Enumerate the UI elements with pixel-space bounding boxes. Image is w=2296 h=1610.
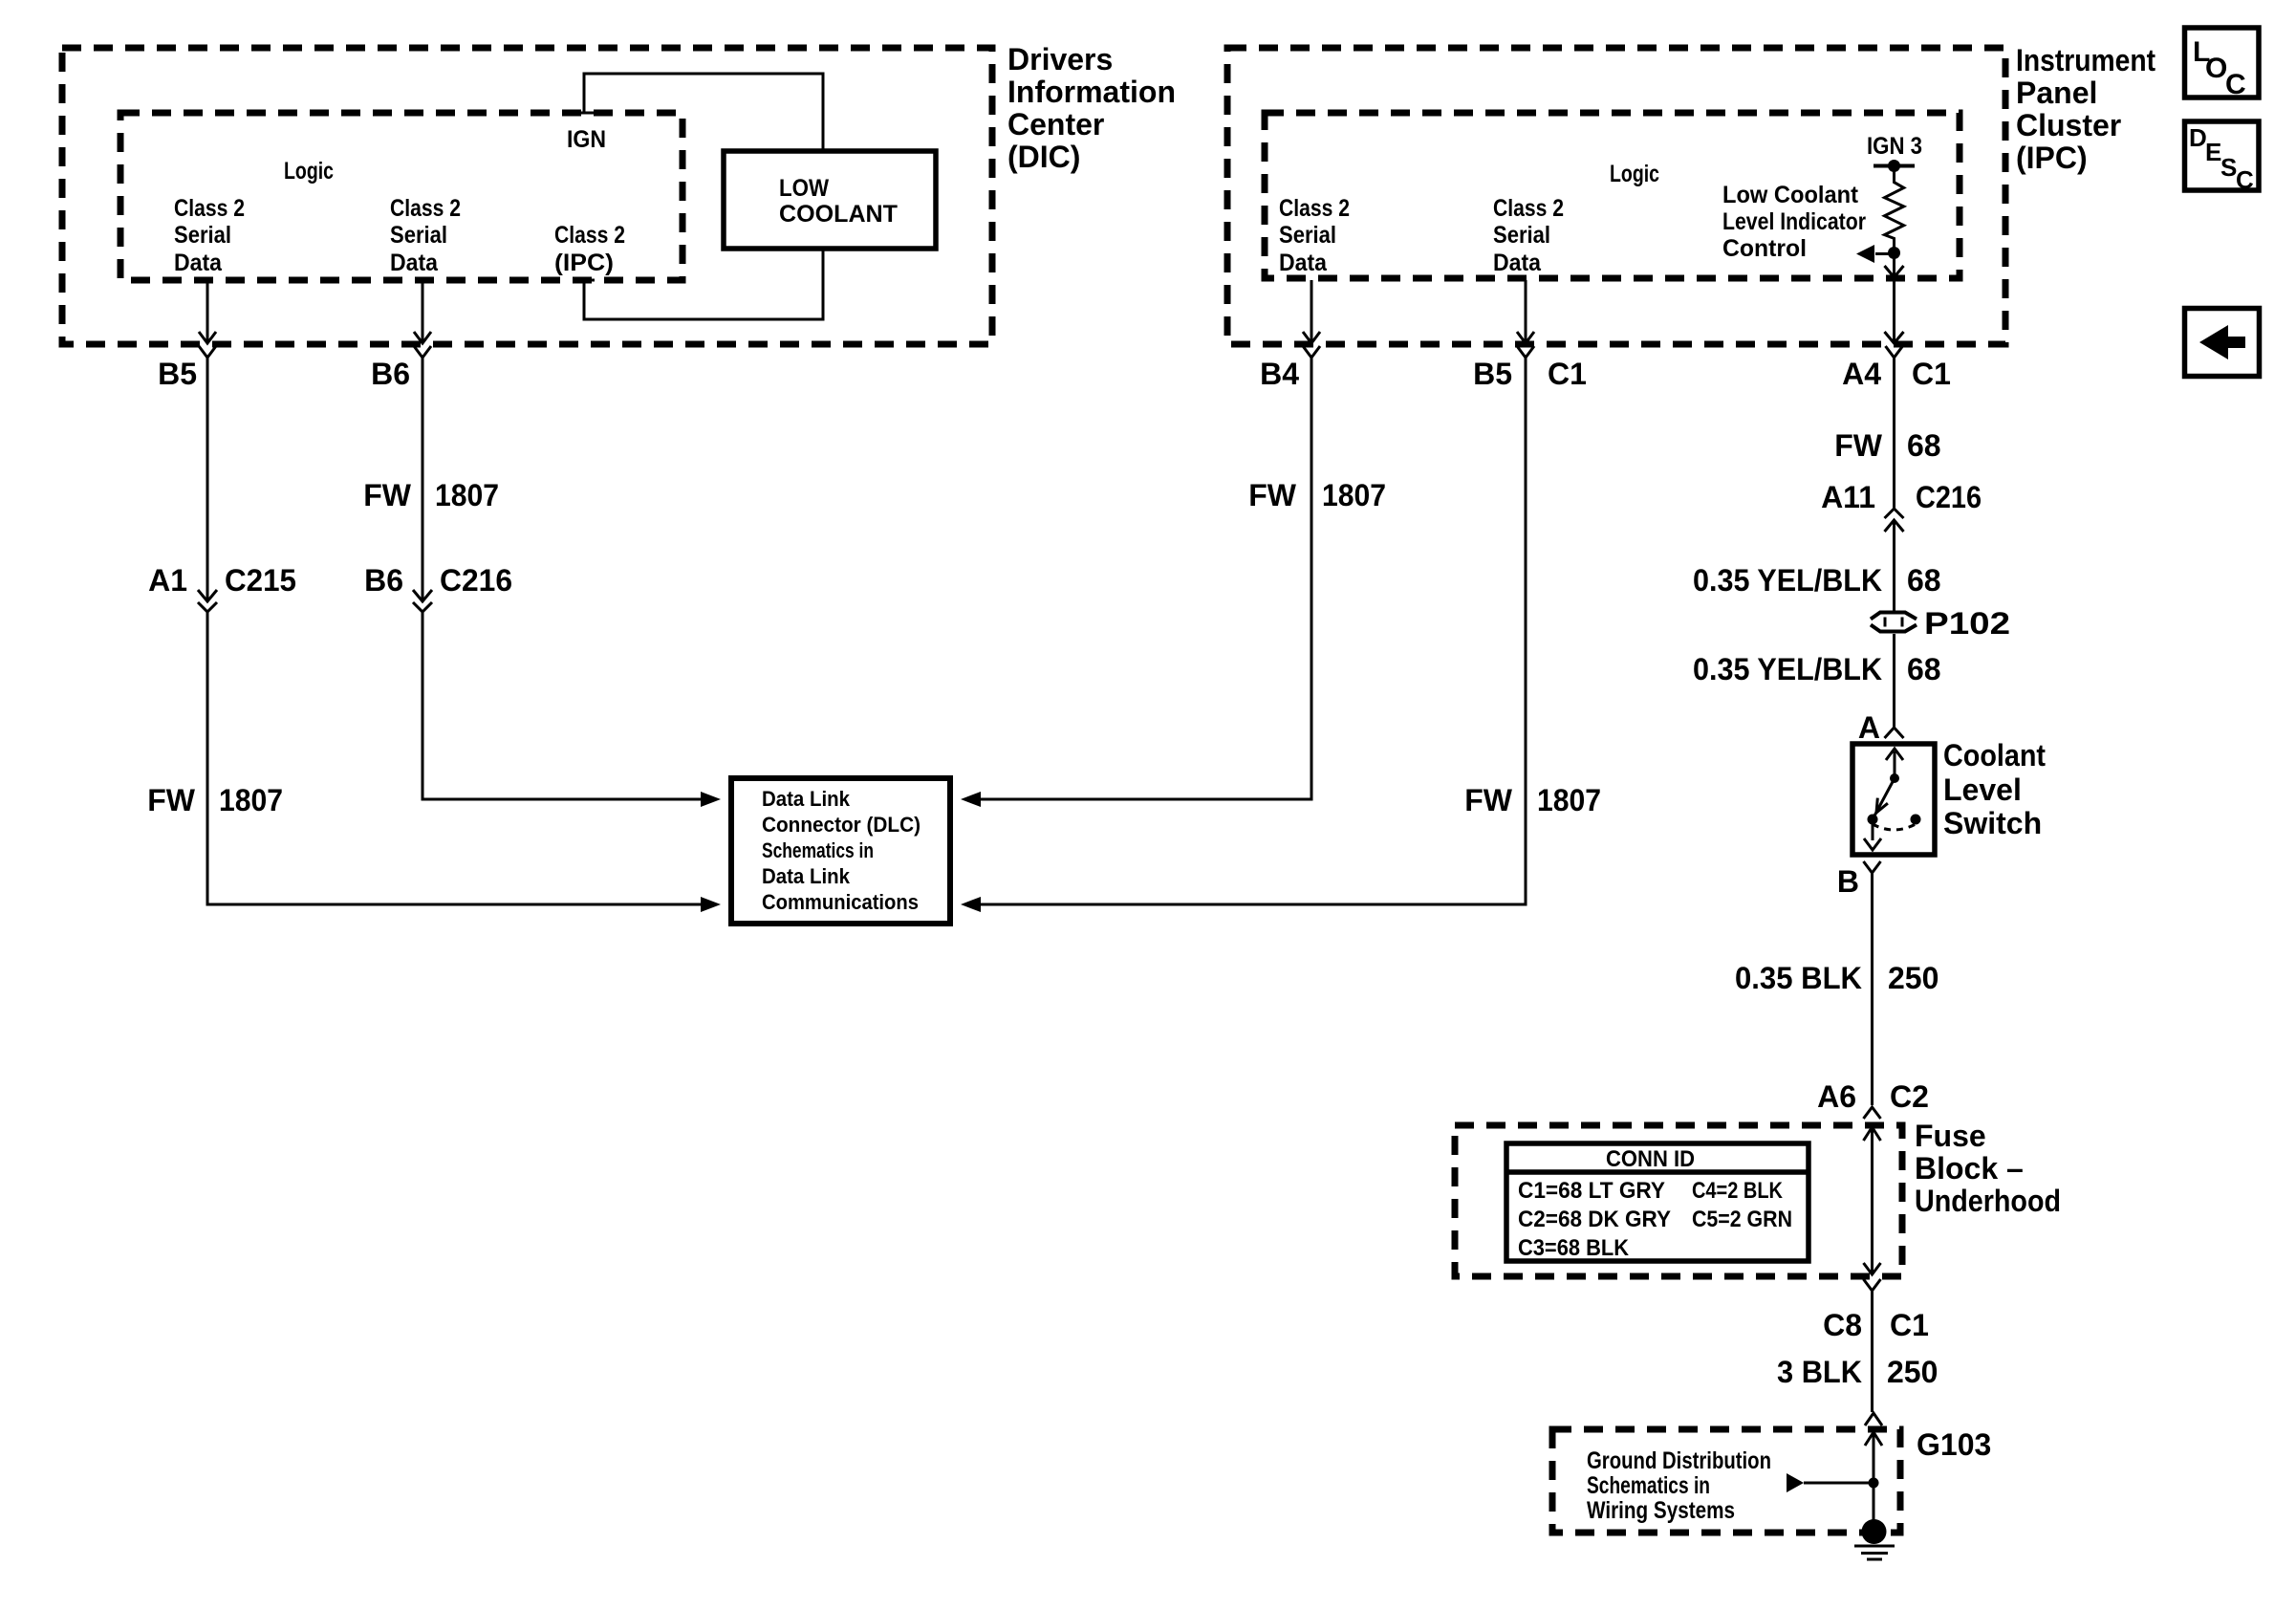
svg-text:Level: Level: [1943, 772, 2022, 807]
switch dashed throw arc: [1873, 824, 1916, 830]
svg-text:Cluster: Cluster: [2016, 108, 2121, 142]
wire C216 to P102: [1893, 520, 1895, 613]
connector Y at pin B5 (IPC): [1517, 346, 1534, 358]
svg-text:Schematics in: Schematics in: [1587, 1472, 1710, 1499]
svg-text:Class 2: Class 2: [1493, 195, 1564, 222]
svg-text:B5: B5: [1473, 357, 1512, 391]
wire label 0.35 BLK 250: [1735, 961, 1939, 995]
svg-text:CONN ID: CONN ID: [1606, 1146, 1695, 1172]
svg-text:A: A: [1858, 710, 1880, 745]
svg-text:C: C: [2236, 165, 2254, 194]
svg-text:Data: Data: [174, 250, 223, 276]
svg-text:S: S: [2220, 153, 2237, 182]
svg-text:C4=2 BLK: C4=2 BLK: [1692, 1178, 1784, 1204]
svg-text:0.35 YEL/BLK: 0.35 YEL/BLK: [1693, 563, 1882, 598]
svg-text:A11: A11: [1821, 480, 1875, 514]
svg-text:C1: C1: [1912, 357, 1951, 391]
svg-text:Coolant: Coolant: [1943, 738, 2046, 772]
svg-text:C1: C1: [1548, 357, 1587, 391]
svg-text:IGN 3: IGN 3: [1867, 133, 1922, 160]
svg-text:Underhood: Underhood: [1915, 1184, 2061, 1218]
connector Y at pin B6: [414, 346, 431, 358]
svg-text:Communications: Communications: [762, 890, 919, 914]
wire B5 to DLC bottom row: [207, 612, 701, 904]
svg-text:Class 2: Class 2: [174, 195, 245, 222]
IPC module dashed box: [1227, 48, 2005, 344]
connector Y at pin C8: [1864, 1279, 1881, 1291]
svg-text:Panel: Panel: [2016, 76, 2097, 110]
wire label 0.35 YEL/BLK 68 (upper): [1693, 563, 1941, 598]
coolant level switch label: [1943, 738, 2046, 840]
svg-text:Control: Control: [1722, 235, 1807, 262]
svg-text:Class 2: Class 2: [554, 222, 625, 249]
ground distribution label: [1587, 1447, 1771, 1524]
svg-text:Serial: Serial: [174, 222, 231, 249]
DLC reference box: [731, 778, 950, 924]
svg-text:1807: 1807: [219, 783, 283, 817]
svg-text:FW: FW: [1464, 783, 1513, 817]
svg-text:Class 2: Class 2: [1279, 195, 1350, 222]
svg-text:FW: FW: [363, 478, 412, 512]
svg-text:LOW: LOW: [779, 175, 829, 202]
fuse block name label: [1915, 1119, 2061, 1218]
switch moving contact arm: [1873, 778, 1895, 819]
wire label FW 68: [1834, 428, 1940, 463]
wire A4 down to C216: [1893, 358, 1895, 510]
wire B6 down to C216: [413, 358, 432, 601]
connector Y at pin B: [1864, 861, 1881, 873]
ground symbol G103: [1854, 1519, 1895, 1559]
svg-text:C8: C8: [1823, 1308, 1862, 1342]
wire LOW COOLANT to Class 2 (IPC): [574, 249, 823, 319]
svg-text:C216: C216: [1916, 480, 1982, 514]
wire B down to fuse block: [1871, 873, 1874, 1105]
connector flare at G103: [1865, 1413, 1882, 1425]
coolant level switch box: [1852, 744, 1935, 855]
IGN 3 feed bar: [1874, 160, 1915, 172]
wire IGN to LOW COOLANT: [574, 74, 823, 151]
svg-text:Class 2: Class 2: [390, 195, 461, 222]
svg-text:C1=68 LT GRY: C1=68 LT GRY: [1518, 1178, 1665, 1204]
svg-text:Data Link: Data Link: [762, 787, 851, 811]
svg-text:Drivers: Drivers: [1007, 42, 1113, 76]
arrow into DLC left top: [701, 792, 721, 807]
svg-text:Serial: Serial: [1279, 222, 1336, 249]
resistor (low coolant indicator driver): [1885, 166, 1904, 253]
wire B5 stub out of IPC: [1517, 280, 1534, 343]
svg-text:Schematics in: Schematics in: [762, 838, 874, 862]
switch pivot dot: [1890, 773, 1899, 783]
wire label FW 1807 (B4 wire): [1248, 478, 1386, 512]
Class 2 Serial Data label (DIC left): [174, 195, 245, 276]
svg-text:Instrument: Instrument: [2016, 43, 2155, 77]
switch right contact dot: [1911, 815, 1921, 825]
svg-text:0.35 YEL/BLK: 0.35 YEL/BLK: [1693, 652, 1882, 686]
svg-text:Block –: Block –: [1915, 1151, 2024, 1186]
svg-text:B5: B5: [158, 357, 197, 391]
in-line connector C216 (right): [1885, 509, 1904, 532]
fuse block underhood dashed box: [1455, 1125, 1902, 1276]
svg-text:(IPC): (IPC): [554, 250, 614, 276]
svg-text:68: 68: [1907, 563, 1941, 598]
svg-text:Data: Data: [390, 250, 439, 276]
svg-text:B4: B4: [1260, 357, 1299, 391]
wire C1 to DLC bottom row: [981, 358, 1526, 904]
wire through fuse block: [1864, 1127, 1881, 1274]
svg-text:68: 68: [1907, 428, 1941, 463]
svg-text:A4: A4: [1842, 357, 1881, 391]
ground reference arrow: [1787, 1473, 1879, 1492]
in-line connector C215: [198, 602, 217, 612]
svg-text:C: C: [2225, 69, 2246, 100]
svg-text:0.35 BLK: 0.35 BLK: [1735, 961, 1862, 995]
svg-text:D: D: [2189, 123, 2207, 152]
wire B6 stub out of DIC: [414, 280, 431, 343]
svg-text:COOLANT: COOLANT: [779, 201, 898, 228]
svg-text:C216: C216: [440, 563, 512, 598]
wire A4 stub out of IPC logic: [1885, 253, 1904, 344]
ground wire into box: [1865, 1432, 1882, 1527]
svg-text:G103: G103: [1917, 1427, 1991, 1462]
DESC button: [2185, 121, 2260, 194]
DIC module dashed box: [62, 48, 992, 344]
svg-text:68: 68: [1907, 652, 1941, 686]
svg-text:C2: C2: [1890, 1079, 1929, 1114]
wire B4 stub out of IPC: [1303, 280, 1320, 343]
svg-text:Data: Data: [1279, 250, 1328, 276]
wire label FW 1807 (left wire): [147, 783, 283, 817]
svg-text:IGN: IGN: [567, 126, 606, 153]
svg-text:B6: B6: [364, 563, 403, 598]
svg-text:3 BLK: 3 BLK: [1777, 1355, 1862, 1389]
svg-text:Serial: Serial: [390, 222, 447, 249]
svg-text:Data: Data: [1493, 250, 1542, 276]
svg-text:FW: FW: [147, 783, 196, 817]
svg-text:Logic: Logic: [1610, 161, 1659, 187]
Class 2 (IPC) label: [554, 222, 625, 276]
svg-text:P102: P102: [1924, 606, 2010, 641]
DIC logic dashed box: [120, 113, 682, 280]
in-line connector C216 (left): [413, 602, 432, 612]
IPC logic dashed box: [1265, 113, 1960, 278]
connector Y at pin B5: [199, 346, 216, 358]
svg-text:Serial: Serial: [1493, 222, 1550, 249]
switch bottom exit arrow: [1864, 824, 1881, 850]
wire B4 to DLC top row: [981, 358, 1311, 799]
wire P102 to switch: [1893, 634, 1895, 728]
svg-text:FW: FW: [1834, 428, 1883, 463]
svg-text:C3=68 BLK: C3=68 BLK: [1518, 1235, 1630, 1261]
svg-text:Switch: Switch: [1943, 806, 2042, 840]
svg-text:C1: C1: [1890, 1308, 1929, 1342]
svg-text:Fuse: Fuse: [1915, 1119, 1986, 1153]
wire label 3 BLK 250: [1777, 1355, 1938, 1389]
svg-text:A6: A6: [1817, 1079, 1856, 1114]
connector Y at pin A4: [1886, 346, 1903, 358]
back arrow button: [2185, 309, 2260, 377]
svg-text:1807: 1807: [435, 478, 499, 512]
svg-text:A1: A1: [148, 563, 187, 598]
DIC module name label: [1007, 42, 1176, 174]
svg-text:B: B: [1837, 864, 1859, 899]
wire B5 down to C215: [198, 358, 217, 601]
svg-text:C215: C215: [225, 563, 296, 598]
Class 2 Serial Data label (IPC right): [1493, 195, 1564, 276]
wire C8 down to G103: [1871, 1291, 1874, 1412]
svg-text:Data Link: Data Link: [762, 864, 851, 888]
svg-text:B6: B6: [371, 357, 410, 391]
svg-text:1807: 1807: [1537, 783, 1601, 817]
svg-text:Center: Center: [1007, 107, 1104, 141]
connector Y at pin B4: [1303, 346, 1320, 358]
wire B5 stub out of DIC: [199, 280, 216, 343]
arrow into DLC right bottom: [961, 897, 981, 912]
LOC button: [2185, 28, 2260, 100]
svg-text:(IPC): (IPC): [2016, 141, 2088, 175]
Low Coolant Level Indicator Control label: [1722, 182, 1866, 262]
in-line connector C2 flare: [1864, 1107, 1881, 1119]
svg-text:C5=2 GRN: C5=2 GRN: [1692, 1207, 1792, 1232]
svg-text:O: O: [2205, 53, 2227, 84]
indicator control tap arrow: [1856, 245, 1900, 263]
arrow into DLC left bottom: [701, 897, 721, 912]
Class 2 Serial Data label (IPC left): [1279, 195, 1350, 276]
svg-text:FW: FW: [1248, 478, 1297, 512]
wire label FW 1807 (C1 wire): [1464, 783, 1601, 817]
svg-text:Level Indicator: Level Indicator: [1722, 208, 1866, 235]
switch internal top contact arrow: [1886, 749, 1903, 778]
splice P102: [1871, 613, 1917, 632]
svg-text:(DIC): (DIC): [1007, 140, 1080, 174]
svg-text:E: E: [2205, 138, 2221, 166]
wire B6 to DLC top row: [422, 612, 701, 799]
Class 2 Serial Data label (DIC right): [390, 195, 461, 276]
svg-text:Ground Distribution: Ground Distribution: [1587, 1447, 1771, 1474]
svg-text:250: 250: [1888, 961, 1939, 995]
IPC module name label: [2016, 43, 2155, 175]
svg-text:C2=68 DK GRY: C2=68 DK GRY: [1518, 1207, 1671, 1232]
CONN ID table: [1506, 1143, 1809, 1261]
ground distribution dashed box: [1552, 1429, 1900, 1533]
wire label FW 1807 (B6 wire): [363, 478, 499, 512]
arrow into DLC right top: [961, 792, 981, 807]
svg-text:Low Coolant: Low Coolant: [1722, 182, 1859, 208]
svg-text:Logic: Logic: [284, 158, 334, 185]
svg-text:250: 250: [1887, 1355, 1938, 1389]
svg-text:Information: Information: [1007, 75, 1176, 109]
svg-text:1807: 1807: [1322, 478, 1386, 512]
svg-text:Connector (DLC): Connector (DLC): [762, 813, 921, 837]
switch lower-left contact dot: [1868, 815, 1878, 825]
connector flare at pin A: [1885, 728, 1904, 738]
wire label 0.35 YEL/BLK 68 (lower): [1693, 652, 1941, 686]
LOW COOLANT indicator box: [724, 151, 936, 249]
svg-text:Wiring Systems: Wiring Systems: [1587, 1497, 1735, 1524]
